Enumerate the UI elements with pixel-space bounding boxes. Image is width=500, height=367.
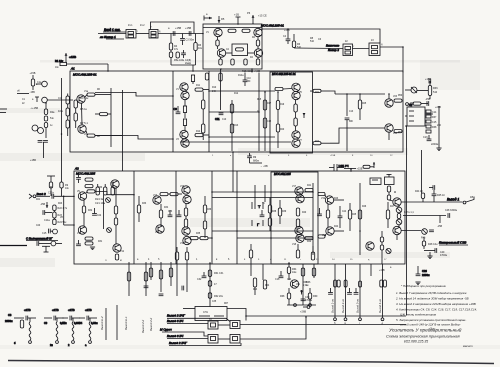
node input 2 <box>29 192 50 199</box>
svg-text:R61 С31: R61 С31 <box>214 272 224 275</box>
feedback divider top <box>96 184 114 195</box>
svg-text:С6: С6 <box>318 38 322 41</box>
transistor r1 <box>325 196 333 204</box>
junction vertical <box>63 196 65 225</box>
svg-text:Выход Е-2: Выход Е-2 <box>100 316 104 330</box>
relay box r3 <box>208 335 218 344</box>
stub x371 <box>370 264 372 276</box>
diode reg <box>300 290 303 295</box>
svg-text:9: 9 <box>258 259 260 261</box>
svg-text:R7 5,1: R7 5,1 <box>80 121 88 125</box>
svg-text:47к: 47к <box>174 48 179 51</box>
transistor o2 <box>393 226 401 240</box>
svg-text:R14а: R14а <box>238 75 244 77</box>
svg-text:R2: R2 <box>252 37 256 39</box>
bus wire y197 <box>212 197 313 199</box>
svg-text:+27В: +27В <box>52 308 59 312</box>
svg-text:6: 6 <box>306 155 308 157</box>
resistor R8 labels <box>310 37 322 43</box>
svg-text:Н4/1 РЧ: Н4/1 РЧ <box>339 164 349 168</box>
capacitor C49 <box>424 248 447 257</box>
wire vertical x259 <box>258 73 260 152</box>
svg-text:510: 510 <box>297 46 302 49</box>
svg-text:С4: С4 <box>79 322 83 325</box>
svg-text:1к: 1к <box>306 284 309 287</box>
top rail <box>203 27 262 29</box>
resistor pill out2 <box>195 134 209 137</box>
svg-text:Выход 2-й: Выход 2-й <box>141 319 145 333</box>
resistor pill <box>394 99 402 102</box>
resistor left col <box>82 200 85 226</box>
capacitor <box>260 210 265 217</box>
wire <box>98 33 126 35</box>
resistor v <box>268 198 271 232</box>
svg-text:47: 47 <box>214 283 217 286</box>
transistor Qd <box>254 49 262 57</box>
pin ticks block A bottom <box>212 155 393 157</box>
transistor <box>156 225 164 233</box>
capacitor row3 <box>37 241 62 246</box>
svg-text:2000м: 2000м <box>5 319 13 323</box>
resistor R23 <box>53 211 63 219</box>
svg-text:11: 11 <box>284 259 287 261</box>
resistor x360 <box>358 94 361 120</box>
resistor pill <box>397 211 414 219</box>
resistor R6 pill <box>87 93 111 96</box>
relay box r1 <box>208 318 218 329</box>
power arrow P6 <box>247 11 267 24</box>
svg-text:С Выдержанный ЗГ: С Выдержанный ЗГ <box>26 237 53 241</box>
svg-text:С8: С8 <box>8 313 12 317</box>
svg-text:4. Конденсаторы С4, С8, С14, С: 4. Конденсаторы С4, С8, С14, С16, С17, С… <box>396 308 477 312</box>
svg-text:+15 СЕ: +15 СЕ <box>258 14 267 18</box>
terminal letters <box>334 321 384 325</box>
resistor pill pair top <box>160 193 182 196</box>
svg-text:V: V <box>150 27 152 29</box>
svg-text:С12а: С12а <box>48 192 54 195</box>
vertical wire right column <box>421 150 423 193</box>
resistor R64 <box>287 263 297 280</box>
svg-text:→ +5В: → +5В <box>260 165 268 168</box>
resistor mid v1 <box>294 100 297 118</box>
transistor r2 <box>326 227 334 235</box>
wire vertical <box>122 90 124 171</box>
svg-text:V21: V21 <box>296 284 301 286</box>
svg-text:+15В: +15В <box>30 72 36 75</box>
NOTES TEXT BLOCK <box>395 284 477 331</box>
wire lower out <box>330 128 385 143</box>
diode mark <box>303 113 306 118</box>
stack labels <box>50 111 55 127</box>
svg-text:Выход 2-й: Выход 2-й <box>149 317 153 331</box>
svg-text:С14: С14 <box>432 111 437 114</box>
capacitor C18 <box>275 271 283 281</box>
transistor B2 <box>113 244 121 252</box>
wire vertical <box>254 185 256 202</box>
svg-text:С3: С3 <box>58 96 62 100</box>
svg-text:V11: V11 <box>110 183 115 185</box>
svg-text:R36: R36 <box>433 87 438 90</box>
capacitor C2 series <box>173 31 175 36</box>
svg-text:М Суреч: М Суреч <box>160 328 172 332</box>
resistor mid col <box>114 188 117 244</box>
svg-text:С16: С16 <box>423 136 428 139</box>
vertical feed <box>209 263 211 307</box>
resistor pill right2 <box>305 237 313 240</box>
resistor R3 stack <box>66 94 69 137</box>
svg-text:А1: А1 <box>70 67 75 71</box>
long vertical feedback wire <box>406 126 408 316</box>
resistor stack x388 <box>386 202 389 228</box>
power arrow down <box>40 202 48 208</box>
resistor pill pair top <box>85 178 93 188</box>
svg-text:-15В: -15В <box>30 91 36 94</box>
resistor v <box>159 204 162 226</box>
scan bottom edge line <box>8 361 494 364</box>
wire into block A upper <box>95 92 173 96</box>
svg-text:+26В: +26В <box>300 310 306 314</box>
resistor R8 pill <box>87 134 122 137</box>
svg-text:15: 15 <box>350 259 353 261</box>
block A internal divider left <box>172 71 174 152</box>
power arrow a2 <box>32 97 39 102</box>
svg-text:680: 680 <box>349 121 354 123</box>
svg-text:б: б <box>270 259 272 261</box>
resistor R22 <box>53 205 68 211</box>
resistor bottom pair <box>249 244 314 260</box>
diode V1 <box>396 206 402 213</box>
ground <box>427 252 432 259</box>
svg-text:а: а <box>206 13 208 16</box>
svg-text:V19: V19 <box>321 198 326 200</box>
transistor o3 <box>366 242 374 250</box>
svg-text:(14) месяц конденсаторов: (14) месяц конденсаторов <box>400 313 437 317</box>
wire r2 out <box>334 230 344 232</box>
svg-text:51к: 51к <box>50 117 55 120</box>
wire mid <box>226 52 255 54</box>
svg-text:R5 1к: R5 1к <box>80 107 88 111</box>
capacitor mid <box>338 206 343 228</box>
svg-text:V3: V3 <box>176 139 180 141</box>
filter cell 3 <box>62 308 81 347</box>
wire vertical <box>438 106 440 148</box>
capacitor C10 cluster <box>238 73 251 87</box>
wire top entry <box>191 75 194 84</box>
svg-text:R8: R8 <box>97 136 101 138</box>
svg-text:R67: R67 <box>224 303 229 305</box>
svg-text:R15: R15 <box>257 99 262 101</box>
svg-text:R37: R37 <box>432 116 437 119</box>
svg-text:V18: V18 <box>292 244 297 246</box>
relay box r2 <box>218 321 240 329</box>
svg-text:а: а <box>168 27 170 30</box>
svg-text:Выход 4-го: Выход 4-го <box>378 299 382 313</box>
svg-text:4700м: 4700м <box>440 254 447 257</box>
svg-text:С15: С15 <box>42 232 47 235</box>
transistor <box>153 196 161 204</box>
transistor Qa <box>214 28 222 36</box>
capacitor top <box>76 174 81 183</box>
svg-text:R41: R41 <box>307 185 312 187</box>
transistor m4 <box>296 234 304 242</box>
wire <box>353 48 370 50</box>
regulator right column <box>301 264 310 308</box>
svg-text:Контрольный Г.ЗВ: Контрольный Г.ЗВ <box>439 241 466 245</box>
transistor col2 c <box>182 227 190 235</box>
resistor pill <box>394 130 402 133</box>
svg-text:А2: А2 <box>74 167 79 171</box>
transistor input a <box>36 81 47 87</box>
transistor col2 d <box>183 236 191 244</box>
svg-text:1к: 1к <box>50 124 53 127</box>
resistor bottom pair <box>175 247 188 260</box>
transistor VT7 <box>292 131 300 139</box>
transistor B1 <box>111 180 119 188</box>
resistor x207 <box>205 73 208 80</box>
svg-text:330: 330 <box>247 81 252 83</box>
svg-text:R12: R12 <box>234 93 239 95</box>
right side cluster <box>286 29 296 48</box>
relay K1.1 <box>126 30 138 39</box>
svg-text:8: 8 <box>244 259 246 261</box>
T symbol lower <box>252 220 263 227</box>
svg-text:+26В: +26В <box>435 106 441 109</box>
svg-text:С32: С32 <box>197 278 202 281</box>
wire top connection <box>183 308 195 310</box>
block B internal divider 3 <box>175 171 177 264</box>
left edge dashes <box>0 109 7 113</box>
svg-text:Выход 2-го: Выход 2-го <box>341 299 345 313</box>
capacitor pair <box>38 141 48 159</box>
svg-text:м: м <box>120 259 122 262</box>
component pill stack <box>426 110 431 133</box>
svg-text:-15В: -15В <box>40 203 45 206</box>
power arrow R5 <box>218 16 225 23</box>
wire r1 out <box>334 199 344 201</box>
svg-text:R25: R25 <box>362 103 367 105</box>
svg-text:14: 14 <box>332 259 335 261</box>
wire vertical x252 top <box>251 69 253 73</box>
svg-text:Выход 2 ВЧГ: Выход 2 ВЧГ <box>169 341 187 345</box>
svg-text:10: 10 <box>370 155 373 157</box>
svg-text:оК: оК <box>17 90 20 93</box>
svg-text:С4: С4 <box>283 35 287 38</box>
svg-text:С9: С9 <box>44 322 48 325</box>
svg-text:С24: С24 <box>342 211 347 213</box>
pin marks <box>105 259 122 262</box>
svg-text:R35: R35 <box>196 233 201 235</box>
svg-text:+15В: +15В <box>379 269 385 272</box>
transistor VT5 <box>292 83 300 91</box>
svg-text:0,33м: 0,33м <box>91 322 98 325</box>
svg-text:R48 С4н: R48 С4н <box>428 243 438 246</box>
svg-text:С13: С13 <box>349 111 354 113</box>
svg-text:R5: R5 <box>221 17 225 21</box>
block B internal divider 4 <box>133 171 135 264</box>
svg-text:К1.2: К1.2 <box>140 25 145 27</box>
svg-text:2. На вывод 14 подается ЗОМ на: 2. На вывод 14 подается ЗОМ набор напряж… <box>395 297 469 301</box>
output 1 wire <box>401 201 463 203</box>
terminal T below <box>47 175 55 177</box>
boxes inside block B top <box>370 174 394 185</box>
ground <box>90 247 95 250</box>
svg-text:R40: R40 <box>302 212 307 214</box>
capacitor C5 series <box>189 31 191 36</box>
svg-text:5. Запрещается установка присп: 5. Запрещается установка приспособлений … <box>396 318 466 322</box>
transistor VT1 <box>180 83 188 91</box>
resistor v right <box>326 204 329 227</box>
capacitor C13 between blocks <box>247 153 268 168</box>
wire down <box>437 216 442 229</box>
svg-text:г: г <box>137 31 138 33</box>
svg-text:а: а <box>32 98 34 101</box>
svg-text:R50: R50 <box>398 95 403 97</box>
svg-text:V13: V13 <box>153 195 158 197</box>
resistor pill top2 <box>242 29 250 32</box>
resistor col right <box>203 196 206 238</box>
svg-text:510: 510 <box>433 91 438 94</box>
svg-text:R21: R21 <box>315 92 320 94</box>
resistor pill top1 <box>228 29 236 32</box>
transistor Qc <box>217 49 225 57</box>
ground <box>436 148 441 151</box>
bottom +15V labels <box>379 266 392 272</box>
svg-text:б: б <box>158 258 160 261</box>
svg-text:10к: 10к <box>55 67 60 69</box>
svg-text:R32: R32 <box>88 210 93 212</box>
value labels scatter <box>22 25 415 305</box>
bottom RC cluster <box>174 50 191 65</box>
resistor pill right <box>305 189 313 192</box>
block A internal divider right <box>208 71 210 152</box>
resistor mid v2 <box>294 118 297 131</box>
capacitor bottom left <box>76 240 81 246</box>
diode V4 <box>386 248 391 253</box>
inner module outline B <box>271 172 318 264</box>
svg-text:R69: R69 <box>313 295 318 298</box>
relay K1.2 <box>149 30 161 39</box>
wire jog to divider <box>95 191 134 194</box>
transistor VT2 <box>181 91 189 99</box>
svg-text:Выход 2 ВЧГ: Выход 2 ВЧГ <box>167 314 185 318</box>
svg-text:С14а: С14а <box>44 219 50 222</box>
resistor <box>230 124 233 133</box>
left pills column <box>380 231 383 264</box>
wire H to connector <box>425 113 433 115</box>
wire horizontal y94 <box>335 93 385 95</box>
resistor bottom b1 <box>219 57 222 65</box>
filter cell 1 <box>5 308 36 345</box>
svg-text:а: а <box>390 266 392 269</box>
svg-text:л: л <box>105 259 107 262</box>
svg-text:Выход 1-го: Выход 1-го <box>331 299 335 313</box>
svg-text:С3 50м: С3 50м <box>186 39 195 42</box>
power arrow a <box>65 53 76 62</box>
svg-text:R33: R33 <box>142 203 147 205</box>
svg-text:С10: С10 <box>247 78 252 80</box>
amplifier module block A outline <box>70 71 403 152</box>
svg-text:8: 8 <box>352 155 354 157</box>
capacitor pair <box>168 210 182 217</box>
svg-text:-15В: -15В <box>425 98 431 101</box>
svg-text:К1.1: К1.1 <box>128 25 133 27</box>
svg-text:К3: К3 <box>371 40 374 42</box>
svg-text:R44 10: R44 10 <box>415 190 423 193</box>
svg-text:R10: R10 <box>212 87 217 89</box>
wire bottom bus <box>180 141 291 143</box>
svg-text:С11: С11 <box>215 117 220 121</box>
long vertical right <box>61 78 63 182</box>
svg-text:+15В: +15В <box>185 26 191 30</box>
wire signal mid <box>209 111 259 113</box>
transistor m1 <box>295 187 303 195</box>
resistor v <box>137 196 140 222</box>
svg-text:V7: V7 <box>299 140 303 142</box>
transistor VT9 <box>385 94 393 107</box>
wire bottom <box>171 64 196 66</box>
svg-text:R20: R20 <box>280 129 285 131</box>
resistor col c <box>149 262 152 280</box>
electrolytic C3 <box>180 34 194 46</box>
svg-text:2мкф: 2мкф <box>185 62 191 65</box>
T symbol upper <box>252 202 263 209</box>
svg-text:R36: R36 <box>207 209 212 211</box>
capacitor next <box>421 230 434 240</box>
svg-text:+16В: +16В <box>284 29 290 32</box>
svg-text:10к: 10к <box>198 47 203 50</box>
svg-text:R68: R68 <box>280 295 285 298</box>
center-top preamp block <box>203 24 262 69</box>
capacitor C32 <box>197 272 206 281</box>
caps bottom right <box>415 266 429 285</box>
bus line 2 <box>167 319 208 324</box>
svg-text:+27В: +27В <box>24 308 31 312</box>
reg labels <box>303 281 308 287</box>
svg-text:в: в <box>216 258 218 261</box>
capacitor line x347 <box>345 94 350 151</box>
amplifier module block B outline <box>74 171 405 264</box>
svg-text:С21 10м: С21 10м <box>95 201 105 205</box>
resistor R36 <box>428 79 431 99</box>
svg-text:V16: V16 <box>180 243 185 245</box>
block B internal divider <box>211 171 213 264</box>
capacitor top <box>429 185 435 190</box>
svg-text:R46: R46 <box>362 206 367 208</box>
relay K2.2 <box>369 43 383 56</box>
capacitor <box>215 113 223 121</box>
resistor v mid <box>184 204 187 219</box>
svg-text:R11: R11 <box>196 85 201 87</box>
svg-text:Усилитель У предварительный: Усилитель У предварительный <box>389 327 462 334</box>
resistor pill out r <box>318 192 326 197</box>
transistor m2 <box>296 195 304 203</box>
switch block box <box>195 307 227 321</box>
svg-text:R47: R47 <box>390 206 395 208</box>
transistor B-in1 <box>78 192 86 200</box>
transistor reg <box>290 280 298 288</box>
resistor pill pair bottom <box>190 237 212 240</box>
svg-text:о: о <box>268 155 270 157</box>
svg-text:б: б <box>14 341 16 345</box>
svg-text:+27В: +27В <box>68 308 75 312</box>
svg-text:МОС.ФМ.225-01: МОС.ФМ.225-01 <box>261 24 284 28</box>
svg-text:С48 3300м: С48 3300м <box>445 209 457 212</box>
svg-text:+15В: +15В <box>30 159 36 162</box>
power arrow a T <box>204 13 212 21</box>
wire vertical x265 <box>264 92 266 151</box>
wire to cap <box>403 215 446 217</box>
svg-text:Выход 3 ВЧ: Выход 3 ВЧ <box>167 319 184 323</box>
